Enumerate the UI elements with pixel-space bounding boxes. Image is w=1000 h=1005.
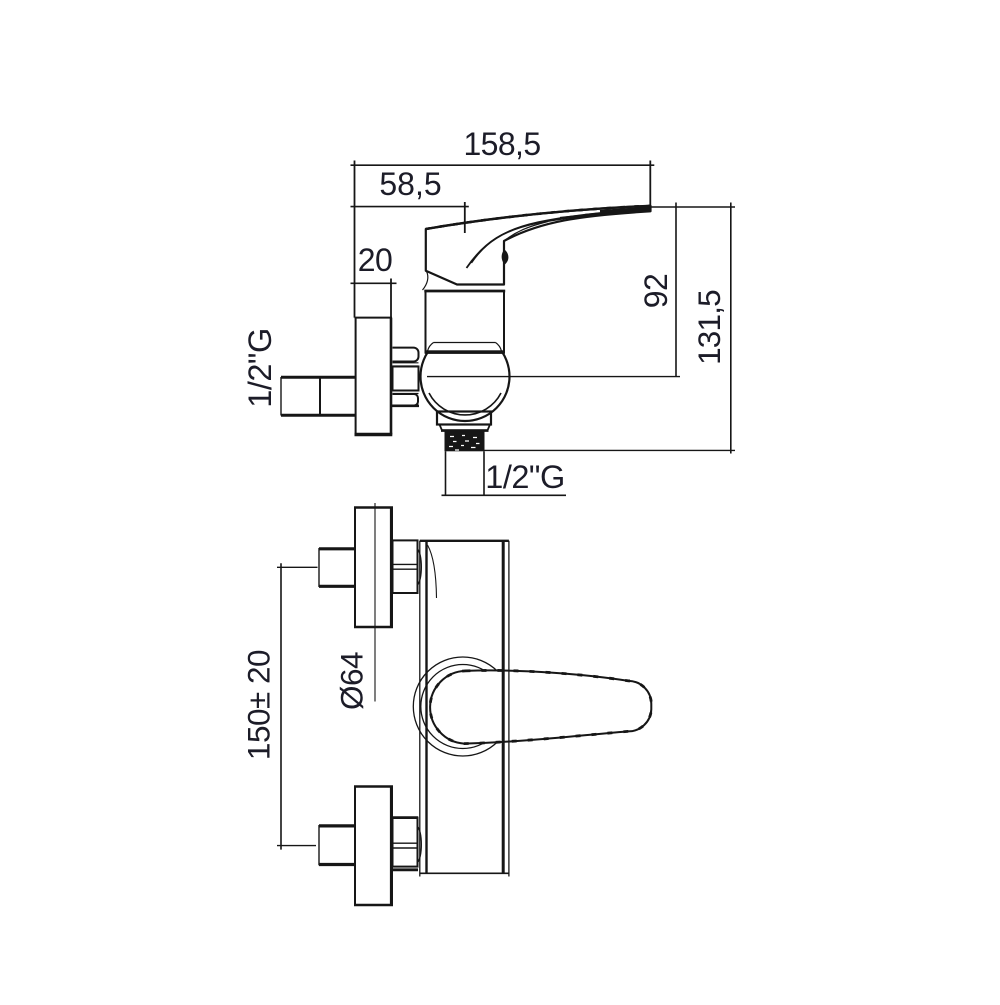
top union nut [393, 540, 418, 593]
svg-text:158,5: 158,5 [463, 126, 540, 162]
neck rectangle [426, 291, 505, 354]
bottom outlet nut [437, 412, 491, 425]
lever top edge emphasis [426, 206, 651, 229]
bottom wall flange [355, 787, 392, 906]
vertical centerline (Ø64 leader) [374, 503, 376, 702]
center leader line through ball [427, 376, 680, 378]
leader line from outlet to 131,5 [485, 449, 736, 451]
svg-text:150± 20: 150± 20 [241, 650, 277, 760]
dimension 20 [351, 282, 397, 284]
svg-text:92: 92 [638, 274, 674, 309]
wall plate (side view) [355, 318, 357, 435]
body slab top-left contour arc [428, 545, 437, 598]
cap bottom skirt curve [423, 271, 428, 290]
handle capsule dash texture [430, 670, 651, 743]
neck-ball joint thick line [425, 350, 505, 354]
lever tip shading curves [560, 210, 651, 218]
valve ball body [421, 332, 510, 421]
lever underside sweep curve A [467, 211, 649, 269]
dimension 131,5 vertical line [730, 203, 732, 454]
lever top edge dash texture [426, 206, 651, 229]
dimension 158,5 [351, 164, 655, 166]
valve ball inner bottom arc [429, 393, 501, 415]
svg-text:1/2"G: 1/2"G [485, 459, 565, 495]
body slab (front view) drawn over capsule [419, 541, 421, 877]
supply pipe (side view) [281, 376, 356, 379]
lever underside short curve at cap edge [504, 222, 548, 242]
escutcheon circles behind handle [413, 657, 512, 756]
lever underside sweep curve B [472, 209, 647, 263]
outlet pipe [446, 451, 485, 495]
svg-text:131,5: 131,5 [691, 290, 727, 365]
handle cap and lever outline [426, 206, 651, 285]
svg-text:Ø64: Ø64 [334, 652, 370, 710]
top supply pipe [319, 547, 355, 550]
dimension 58,5 [351, 206, 469, 208]
handle capsule (front view) [430, 670, 651, 743]
bottom leader line for 1/2"G [442, 494, 567, 496]
dimension 150±20 [277, 566, 318, 568]
extension line right of 158,5 [649, 161, 651, 207]
neck seam line [428, 343, 502, 352]
bottom supply pipe [319, 824, 355, 827]
knurled thread block [445, 432, 485, 452]
union nut stack right of plate (side view) [393, 348, 419, 362]
svg-text:20: 20 [358, 242, 393, 278]
svg-text:1/2"G: 1/2"G [242, 328, 278, 408]
dimension 92 vertical line [675, 203, 677, 377]
bottom outlet flange [440, 425, 491, 431]
top wall flange [355, 508, 392, 628]
extension from lever tip to right dims [651, 206, 736, 208]
indicator dot on lever [502, 250, 509, 265]
svg-text:58,5: 58,5 [379, 166, 441, 202]
extension line left (also runs to plate) [354, 161, 356, 318]
bottom union nut [393, 818, 418, 867]
